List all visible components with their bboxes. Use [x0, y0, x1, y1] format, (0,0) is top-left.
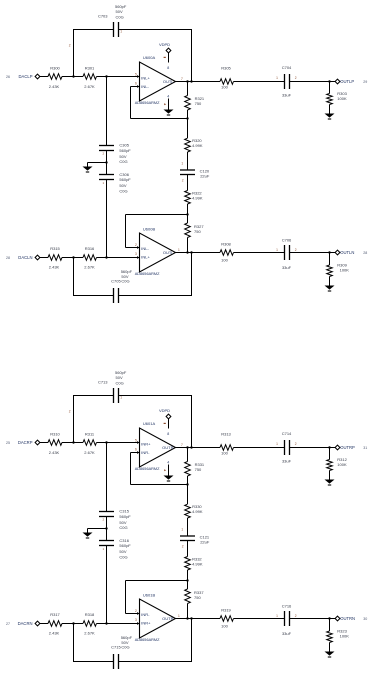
wire — [119, 29, 193, 31]
wire — [187, 152, 189, 170]
svg-text:C715: C715 — [111, 644, 121, 649]
junction — [190, 617, 192, 619]
svg-text:INL-: INL- — [141, 84, 149, 89]
junction — [105, 527, 107, 529]
junction — [105, 441, 107, 443]
svg-text:31: 31 — [363, 446, 367, 450]
wire — [188, 618, 221, 620]
wire — [175, 252, 188, 254]
ground — [325, 652, 335, 656]
junction — [186, 579, 188, 581]
wire — [175, 447, 188, 449]
svg-text:4.99K: 4.99K — [192, 195, 203, 200]
wire — [192, 447, 221, 449]
wire — [126, 580, 189, 582]
svg-text:2.67K: 2.67K — [84, 84, 95, 89]
op-amp U600A — [140, 62, 176, 101]
svg-text:30: 30 — [363, 617, 367, 621]
resistor R309 100K — [329, 253, 331, 266]
wire — [87, 529, 89, 533]
svg-text:C0G: C0G — [121, 644, 129, 649]
capacitor C714 33uF — [284, 440, 286, 455]
wire — [187, 175, 189, 191]
ground — [164, 476, 174, 480]
svg-text:1: 1 — [181, 528, 183, 532]
wire — [125, 215, 127, 248]
ground — [164, 110, 174, 114]
wire — [191, 619, 193, 662]
wire — [187, 485, 189, 505]
capacitor C703 560pF — [113, 22, 115, 37]
wire — [119, 395, 193, 397]
capacitor C706 33uF — [284, 245, 286, 260]
wire — [234, 447, 285, 449]
svg-text:4.99K: 4.99K — [192, 143, 203, 148]
resistor R330 4.99K — [185, 504, 191, 518]
svg-text:750: 750 — [195, 101, 202, 106]
svg-text:22uF: 22uF — [200, 174, 210, 179]
svg-text:OUTL: OUTL — [163, 250, 174, 255]
svg-text:C315: C315 — [119, 509, 129, 514]
svg-text:100: 100 — [221, 450, 228, 455]
wire — [131, 118, 189, 120]
svg-text:2.67K: 2.67K — [84, 450, 95, 455]
junction — [328, 80, 330, 82]
wire — [187, 110, 189, 119]
ground — [83, 533, 93, 537]
wire — [330, 252, 336, 254]
wire — [131, 86, 140, 88]
junction — [186, 446, 188, 448]
svg-text:100K: 100K — [337, 96, 347, 101]
resistor R316 2.67K — [83, 255, 96, 261]
svg-text:C0G: C0G — [121, 278, 129, 283]
svg-text:OUTLN: OUTLN — [340, 250, 354, 255]
capacitor C705 560pF — [113, 288, 115, 303]
svg-text:VDPD: VDPD — [159, 408, 170, 413]
wire — [87, 163, 89, 167]
svg-text:560pF: 560pF — [119, 514, 131, 519]
svg-text:27: 27 — [6, 622, 10, 626]
svg-text:C706: C706 — [282, 237, 292, 242]
resistor R327 750 — [185, 223, 191, 238]
svg-text:2.43K: 2.43K — [49, 631, 60, 636]
svg-text:4: 4 — [167, 461, 169, 465]
svg-text:OUTR: OUTR — [162, 616, 173, 621]
wire — [74, 623, 84, 625]
pin stub — [137, 451, 140, 454]
svg-text:C716: C716 — [282, 603, 292, 608]
svg-text:26: 26 — [6, 75, 10, 79]
svg-text:1: 1 — [276, 248, 278, 252]
svg-text:C713: C713 — [98, 380, 108, 385]
svg-text:33uF: 33uF — [282, 459, 292, 464]
svg-text:4.99K: 4.99K — [192, 561, 203, 566]
wire — [73, 258, 75, 296]
resistor R301 2.67K — [83, 74, 96, 80]
wire — [330, 81, 336, 83]
resistor R332 4.99K — [185, 557, 191, 570]
wire — [168, 99, 170, 110]
svg-text:22uF: 22uF — [200, 540, 210, 545]
svg-text:100K: 100K — [340, 634, 350, 639]
resistor R317 2.43K — [48, 621, 62, 627]
pin mark — [164, 469, 166, 471]
svg-text:C0G: C0G — [116, 15, 124, 20]
svg-text:1: 1 — [120, 30, 122, 34]
svg-text:OUTR: OUTR — [162, 445, 173, 450]
svg-text:2.67K: 2.67K — [84, 265, 95, 270]
wire — [175, 81, 188, 83]
junction — [72, 256, 74, 258]
wire — [191, 253, 193, 296]
wire — [40, 623, 48, 625]
svg-text:U600B: U600B — [143, 227, 156, 232]
wire — [330, 447, 336, 449]
junction — [186, 213, 188, 215]
svg-text:3: 3 — [135, 252, 137, 256]
junction — [186, 117, 188, 119]
svg-text:INR-: INR- — [141, 612, 150, 617]
pin stub — [137, 85, 140, 88]
svg-text:OUTRN: OUTRN — [340, 616, 355, 621]
svg-text:2: 2 — [295, 442, 297, 446]
svg-text:1: 1 — [181, 162, 183, 166]
svg-text:4.99K: 4.99K — [192, 509, 203, 514]
wire — [130, 87, 132, 119]
ground — [325, 114, 335, 118]
pin stub — [137, 441, 140, 444]
wire — [106, 180, 108, 258]
svg-text:OUTRP: OUTRP — [340, 445, 355, 450]
svg-text:560pF: 560pF — [119, 177, 131, 182]
svg-text:AD8656ARMZ: AD8656ARMZ — [135, 101, 160, 105]
junction — [328, 617, 330, 619]
svg-text:AD8656ARMZ: AD8656ARMZ — [135, 272, 160, 276]
svg-text:U600A: U600A — [143, 55, 156, 60]
wire — [62, 257, 74, 259]
svg-text:100: 100 — [221, 84, 228, 89]
svg-text:1: 1 — [276, 442, 278, 446]
resistor R319 100 — [220, 616, 233, 622]
wire — [187, 604, 189, 619]
wire — [40, 76, 48, 78]
svg-text:100K: 100K — [337, 462, 347, 467]
svg-text:VDPD: VDPD — [159, 42, 170, 47]
svg-text:560pF: 560pF — [119, 148, 131, 153]
svg-text:R311: R311 — [85, 432, 95, 437]
svg-text:560pF: 560pF — [119, 543, 131, 548]
svg-text:6: 6 — [135, 447, 137, 451]
svg-text:AD8656ARMZ: AD8656ARMZ — [135, 638, 160, 642]
junction — [105, 161, 107, 163]
wire — [131, 452, 140, 454]
wire — [106, 546, 108, 624]
ground — [325, 286, 335, 290]
svg-text:100: 100 — [221, 623, 228, 628]
wire — [119, 295, 193, 297]
svg-text:7: 7 — [181, 443, 183, 447]
resistor R318 2.67K — [83, 621, 96, 627]
svg-text:2: 2 — [135, 609, 137, 613]
svg-text:C714: C714 — [282, 431, 292, 436]
wire — [188, 447, 192, 449]
wire — [234, 618, 285, 620]
resistor R311 2.67K — [83, 440, 96, 446]
wire — [74, 257, 84, 259]
wire — [88, 162, 107, 164]
svg-text:R313: R313 — [221, 432, 231, 437]
capacitor C715 560pF — [113, 654, 115, 669]
op-amp U601A — [140, 428, 176, 467]
wire — [126, 613, 140, 615]
junction — [105, 75, 107, 77]
wire — [168, 53, 170, 63]
svg-text:R310: R310 — [50, 432, 60, 437]
wire — [88, 528, 107, 530]
wire — [187, 581, 189, 590]
wire — [62, 623, 74, 625]
wire — [191, 396, 193, 448]
wire — [40, 442, 48, 444]
svg-text:50V: 50V — [116, 9, 123, 14]
svg-text:C305: C305 — [119, 143, 129, 148]
svg-text:R300: R300 — [50, 66, 60, 71]
ground — [325, 480, 335, 484]
svg-text:33uF: 33uF — [282, 265, 292, 270]
resistor R323 100K — [329, 619, 331, 632]
capacitor C713 560pF — [113, 388, 115, 403]
svg-text:2: 2 — [69, 44, 71, 48]
wire — [192, 81, 221, 83]
capacitor C305 560pF — [99, 145, 114, 147]
wire — [188, 81, 192, 83]
pin mark — [164, 103, 166, 105]
svg-text:R318: R318 — [85, 612, 95, 617]
wire — [106, 517, 108, 541]
svg-text:6: 6 — [135, 81, 137, 85]
wire — [73, 396, 75, 443]
wire — [97, 442, 107, 444]
svg-text:750: 750 — [194, 229, 201, 234]
svg-text:C0G: C0G — [119, 525, 127, 530]
wire — [290, 81, 330, 83]
svg-text:U601A: U601A — [143, 421, 156, 426]
svg-text:100K: 100K — [340, 268, 350, 273]
svg-text:DACRN: DACRN — [18, 621, 33, 626]
svg-text:R305: R305 — [221, 66, 231, 71]
svg-text:C0G: C0G — [116, 381, 124, 386]
resistor R313 100 — [220, 445, 233, 451]
svg-text:DACLN: DACLN — [18, 255, 32, 260]
svg-text:2.43K: 2.43K — [49, 450, 60, 455]
wire — [234, 252, 285, 254]
wire — [188, 252, 221, 254]
wire — [62, 442, 74, 444]
junction — [186, 251, 188, 253]
svg-text:2: 2 — [182, 545, 184, 549]
wire — [73, 30, 75, 77]
wire — [168, 465, 170, 476]
wire — [40, 257, 48, 259]
svg-text:2.43K: 2.43K — [49, 265, 60, 270]
wire — [107, 442, 140, 444]
resistor R305 100 — [220, 79, 233, 85]
svg-text:OUTL: OUTL — [163, 79, 174, 84]
svg-text:33uF: 33uF — [282, 631, 292, 636]
wire — [187, 215, 189, 224]
svg-text:2: 2 — [295, 614, 297, 618]
svg-text:1: 1 — [276, 76, 278, 80]
svg-text:2: 2 — [295, 248, 297, 252]
svg-text:C0G: C0G — [119, 554, 127, 559]
wire — [187, 82, 189, 96]
junction — [190, 251, 192, 253]
svg-text:28: 28 — [6, 256, 10, 260]
svg-text:3: 3 — [135, 618, 137, 622]
resistor R303 100K — [329, 82, 331, 94]
op-amp U601B — [140, 599, 176, 638]
svg-text:750: 750 — [195, 467, 202, 472]
junction — [328, 446, 330, 448]
junction — [105, 622, 107, 624]
svg-text:50V: 50V — [116, 375, 123, 380]
svg-text:R308: R308 — [221, 241, 231, 246]
wire — [73, 624, 75, 662]
wire — [97, 76, 107, 78]
svg-text:2.43K: 2.43K — [49, 84, 60, 89]
wire — [74, 442, 84, 444]
resistor R312 100K — [329, 448, 331, 460]
svg-text:OUTLP: OUTLP — [340, 79, 354, 84]
svg-text:2.67K: 2.67K — [84, 631, 95, 636]
wire — [187, 541, 189, 557]
svg-text:1: 1 — [120, 396, 122, 400]
svg-text:8: 8 — [167, 66, 169, 70]
wire — [97, 257, 107, 259]
pin stub — [137, 612, 140, 615]
resistor R315 2.43K — [48, 255, 62, 261]
junction — [186, 483, 188, 485]
svg-text:INL-: INL- — [141, 246, 149, 251]
wire — [106, 443, 108, 512]
svg-text:R317: R317 — [50, 612, 60, 617]
resistor R337 750 — [185, 589, 191, 604]
svg-text:INR+: INR+ — [141, 621, 151, 626]
wire — [73, 29, 114, 31]
wire — [330, 618, 336, 620]
resistor R308 100 — [220, 250, 233, 256]
capacitor C315 560pF — [99, 511, 114, 513]
ground — [83, 167, 93, 171]
svg-text:INL+: INL+ — [141, 75, 150, 80]
resistor R310 2.43K — [48, 440, 62, 446]
wire — [187, 204, 189, 215]
svg-text:C703: C703 — [98, 14, 108, 19]
svg-text:C704: C704 — [282, 65, 292, 70]
svg-text:1: 1 — [178, 248, 180, 252]
junction — [72, 622, 74, 624]
wire — [187, 119, 189, 139]
wire — [130, 453, 132, 485]
resistor R322 4.99K — [185, 191, 191, 204]
junction — [190, 446, 192, 448]
resistor R321 750 — [185, 96, 191, 111]
wire — [290, 252, 330, 254]
wire — [126, 247, 140, 249]
svg-text:100: 100 — [221, 257, 228, 262]
svg-text:33uF: 33uF — [282, 93, 292, 98]
junction — [186, 80, 188, 82]
svg-text:2: 2 — [295, 76, 297, 80]
wire — [73, 395, 114, 397]
svg-text:INR+: INR+ — [141, 441, 151, 446]
port OUTLP — [335, 79, 340, 84]
wire — [187, 518, 189, 536]
wire — [73, 661, 114, 663]
wire — [106, 77, 108, 146]
junction — [190, 80, 192, 82]
svg-text:5: 5 — [135, 72, 137, 76]
svg-text:R316: R316 — [85, 246, 95, 251]
wire — [187, 448, 189, 462]
wire — [107, 76, 140, 78]
junction — [72, 441, 74, 443]
svg-text:U601B: U601B — [143, 593, 156, 598]
svg-text:C0G: C0G — [119, 159, 127, 164]
svg-text:DACRP: DACRP — [18, 440, 33, 445]
wire — [74, 76, 84, 78]
svg-text:DACLP: DACLP — [19, 74, 33, 79]
svg-text:AD8656ARMZ: AD8656ARMZ — [135, 467, 160, 471]
svg-text:7: 7 — [181, 77, 183, 81]
svg-text:C0G: C0G — [119, 188, 127, 193]
wire — [187, 476, 189, 485]
svg-text:750: 750 — [194, 595, 201, 600]
svg-text:2: 2 — [182, 179, 184, 183]
wire — [191, 30, 193, 82]
svg-text:R301: R301 — [85, 66, 95, 71]
wire — [168, 419, 170, 429]
capacitor C120 22uF — [180, 169, 195, 171]
pin stub — [137, 75, 140, 78]
pin stub — [137, 256, 140, 259]
junction — [72, 75, 74, 77]
svg-text:INR-: INR- — [141, 450, 150, 455]
svg-text:2: 2 — [135, 243, 137, 247]
svg-text:8: 8 — [167, 432, 169, 436]
port OUTRN — [335, 616, 340, 621]
svg-text:29: 29 — [363, 80, 367, 84]
svg-text:1: 1 — [178, 614, 180, 618]
wire — [107, 623, 140, 625]
wire — [119, 661, 193, 663]
svg-text:C705: C705 — [111, 278, 121, 283]
op-amp U600B — [140, 233, 176, 272]
junction — [328, 251, 330, 253]
svg-text:25: 25 — [6, 441, 10, 445]
wire — [107, 257, 140, 259]
svg-text:2: 2 — [69, 410, 71, 414]
resistor R320 4.99K — [185, 138, 191, 152]
wire — [175, 618, 188, 620]
wire — [126, 214, 189, 216]
capacitor C121 22uF — [180, 535, 195, 537]
junction — [105, 256, 107, 258]
capacitor C716 33uF — [284, 611, 286, 626]
wire — [234, 81, 285, 83]
wire — [97, 623, 107, 625]
